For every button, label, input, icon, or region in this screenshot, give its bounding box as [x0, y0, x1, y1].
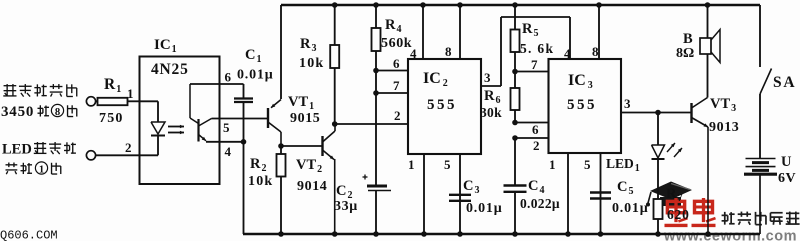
annotation line 2: 3450 pin 8 [1, 104, 77, 120]
pin 5 label IC2 [444, 157, 451, 172]
watermark site name (CJK) [722, 212, 800, 225]
junction R6 / IC3 pin6 [512, 120, 518, 126]
svg-text:2: 2 [394, 108, 401, 123]
capacitor C4 [504, 138, 527, 234]
label IC3 [568, 72, 593, 91]
label C4 value [520, 196, 560, 211]
svg-text:Q606.COM: Q606.COM [0, 229, 58, 241]
label C1 value [237, 68, 273, 83]
svg-text:8: 8 [55, 106, 60, 118]
label R3 value 10k [299, 56, 324, 71]
pin 1 label IC2 [408, 157, 415, 172]
terminal input 2 [86, 151, 139, 160]
svg-text:4N25: 4N25 [151, 61, 189, 78]
label R5 [522, 21, 538, 39]
junction R5 top [512, 2, 518, 8]
junction R4 / IC2 pin7 [373, 90, 379, 96]
svg-text:6V: 6V [778, 171, 796, 186]
wire C1 to ground rail [243, 142, 245, 234]
wire IC1 pin 4 [206, 141, 244, 143]
pin 1 label IC1 [127, 86, 134, 101]
label C1 [245, 47, 261, 65]
svg-text:2: 2 [125, 140, 132, 155]
wire to IC2 pin 7 [376, 92, 408, 94]
label R3 [300, 36, 316, 54]
junction R2 ground [278, 231, 284, 237]
pin 4 label IC2 [410, 46, 417, 61]
junction IC3 pin1 ground [565, 231, 571, 237]
speaker B [700, 5, 720, 98]
svg-text:B: B [683, 31, 693, 47]
junction C1/pin4 [241, 139, 247, 145]
IC1 phototransistor [190, 84, 212, 142]
svg-text:7: 7 [531, 57, 538, 72]
pin 6 label IC2 [393, 56, 400, 71]
label R7 [666, 186, 682, 204]
wire to IC3 pin 2 [515, 137, 549, 139]
svg-text:5. 6k: 5. 6k [520, 41, 554, 56]
junction IC3 pin2 branch [512, 135, 518, 141]
label R2 value 10k [248, 174, 273, 189]
capacitor C2 [367, 186, 391, 234]
junction R3 / VT2 collector / IC2 pin2 [332, 121, 338, 127]
pin 3 label IC2 [484, 70, 491, 85]
junction C4 ground [512, 231, 518, 237]
svg-text:2: 2 [533, 138, 540, 153]
annotation line 1 (CJK): digital clock chip [3, 84, 76, 97]
junction R7 ground [655, 231, 661, 237]
svg-text:3: 3 [624, 96, 631, 111]
wire ground bottom rail [243, 233, 760, 235]
svg-text:5: 5 [444, 157, 451, 172]
svg-text:1: 1 [549, 157, 556, 172]
LED1 light arrows [667, 143, 682, 157]
svg-text:9015: 9015 [290, 111, 320, 126]
pin 6 label IC1 [225, 70, 232, 85]
wire trigger to IC2 pin 2 [335, 123, 408, 125]
wire IC3 pin 3 to VT3 base [621, 112, 692, 114]
label VT2 type 9014 [297, 179, 327, 194]
capacitor C2 polarity mark [363, 175, 368, 180]
wire positive supply top rail [281, 4, 760, 6]
junction C5 ground [598, 231, 604, 237]
resistor R6 [511, 72, 520, 123]
label VT3 type 9013 [709, 120, 739, 135]
svg-text:555: 555 [567, 97, 597, 113]
junction IC2 pin4 top [420, 2, 426, 8]
timer IC2 box [408, 59, 481, 154]
LED LED1 [652, 113, 665, 200]
label R6 value 30k [480, 105, 502, 120]
wire IC3 pin 8 [598, 5, 600, 59]
svg-text:5: 5 [584, 157, 591, 172]
svg-text:555: 555 [427, 97, 457, 113]
wire VT1 collector to VT2 base [281, 145, 323, 147]
resistor R3 [330, 5, 339, 124]
battery U [744, 159, 777, 235]
watermark red logo text [664, 198, 715, 225]
transistor VT1 [268, 100, 281, 147]
junction C3 ground [457, 231, 463, 237]
svg-text:0.01μ: 0.01μ [237, 68, 273, 83]
junction R3 top [332, 2, 338, 8]
label SA [773, 74, 796, 91]
label R7 value 620 [667, 207, 690, 222]
label IC2 type 555 [427, 97, 457, 113]
label VT3 [710, 96, 736, 114]
label IC1 type 4N25 [151, 61, 189, 78]
label C5 [617, 179, 633, 197]
svg-text:10k: 10k [299, 56, 324, 71]
svg-text:9013: 9013 [709, 120, 739, 135]
timer IC3 box [549, 59, 622, 153]
svg-text:LED: LED [2, 142, 32, 158]
IC1 coupling arrows [168, 125, 184, 135]
svg-text:8: 8 [592, 44, 599, 59]
wire to IC3 pin 7 [515, 71, 549, 73]
wire top-left corner down to VT1 emitter [280, 5, 282, 99]
svg-text:SA: SA [773, 74, 796, 91]
label U value 6V [778, 171, 796, 186]
resistor R5 [511, 5, 520, 72]
pin 8 label IC2 [445, 44, 452, 59]
capacitor C1 [234, 84, 253, 142]
label LED1 [606, 156, 640, 174]
wire IC1 pin 6 to C1 [190, 83, 244, 85]
pin 6 label IC3 [532, 122, 539, 137]
terminal input 1 [86, 97, 98, 106]
svg-text:0.022μ: 0.022μ [520, 196, 560, 211]
label R4 value 560k [381, 36, 412, 51]
svg-text:8: 8 [445, 44, 452, 59]
wire IC2 pin 4 [422, 5, 424, 59]
label C4 [528, 178, 544, 196]
svg-text:0.01μ: 0.01μ [612, 201, 648, 216]
svg-text:4: 4 [410, 46, 417, 61]
svg-text:4: 4 [225, 144, 232, 159]
wire IC2 pin 8 [459, 5, 461, 59]
junction C2 ground [373, 231, 379, 237]
wire IC2 pin 5 down [459, 154, 461, 234]
pin 7 label IC3 [531, 57, 538, 72]
pin 5 label IC1 [223, 120, 230, 135]
pin 7 label IC2 [393, 78, 400, 93]
svg-text:1: 1 [408, 157, 415, 172]
pin 1 label IC3 [549, 157, 556, 172]
svg-text:3: 3 [484, 70, 491, 85]
svg-text:7: 7 [393, 78, 400, 93]
svg-text:U: U [781, 154, 792, 170]
svg-text:0.01μ: 0.01μ [466, 201, 502, 216]
switch SA blade [760, 69, 772, 95]
label B value 8 ohm [676, 46, 694, 61]
wire switch to battery [759, 94, 761, 158]
svg-text:9014: 9014 [297, 179, 327, 194]
label C2 value 33u [334, 199, 358, 214]
annotation line 4: common-cathode pin 1 [6, 162, 61, 175]
watermark graduation-cap logo [646, 182, 692, 207]
label R2 [250, 156, 266, 174]
IC1 internal LED [140, 101, 166, 155]
pin 3 label IC3 [624, 96, 631, 111]
junction R4 top [373, 2, 379, 8]
svg-text:30k: 30k [480, 105, 502, 120]
svg-text:3450: 3450 [1, 104, 34, 120]
svg-text:620: 620 [667, 207, 690, 222]
label IC1 [154, 37, 177, 55]
label C3 value [466, 201, 502, 216]
label VT2 [296, 157, 322, 175]
junction R4 / IC2 pin6 [373, 68, 379, 74]
optocoupler IC1 box [140, 57, 220, 185]
resistor R7 [654, 199, 663, 234]
wire to IC2 pin 6 [376, 70, 408, 72]
capacitor C3 [449, 195, 471, 201]
junction VT2 emitter ground [332, 231, 338, 237]
svg-text:750: 750 [99, 111, 124, 126]
svg-text:5: 5 [223, 120, 230, 135]
junction R5 / R6 / IC3 pin7 [512, 69, 518, 75]
transistor VT2 [323, 124, 336, 234]
pin 4 label IC1 [225, 144, 232, 159]
svg-text:1: 1 [127, 86, 134, 101]
label R1 [104, 76, 121, 95]
svg-text:33μ: 33μ [334, 199, 358, 214]
junction LED branch [655, 110, 661, 116]
watermark url text [663, 229, 797, 241]
junction VT1 collector / R2 / VT2 base [278, 143, 284, 149]
wire IC2 pin 3 output [481, 17, 570, 86]
label B [683, 31, 693, 47]
transistor VT3 [692, 98, 709, 128]
junction IC2 pin1 ground [421, 231, 427, 237]
wire IC3 pin 1 to ground [567, 153, 569, 234]
pin 8 label IC3 [592, 44, 599, 59]
pin 2 label IC3 [533, 138, 540, 153]
label R1 value 750 [99, 111, 124, 126]
pin 4 label IC3 [564, 46, 571, 61]
label IC3 type 555 [567, 97, 597, 113]
label U [781, 154, 792, 170]
capacitor C5 [590, 193, 611, 199]
svg-text:10k: 10k [248, 174, 273, 189]
wire IC2 pin 1 to ground [423, 154, 425, 234]
label R6 [484, 88, 500, 106]
label IC2 [423, 70, 448, 89]
watermark site url bottom-left [0, 229, 58, 241]
junction VT3 emitter ground [705, 231, 711, 237]
wire IC1 pin 5 to VT1 base [212, 118, 269, 120]
resistor R4 [372, 5, 381, 187]
annotation line 3 (LED display) [2, 142, 76, 158]
svg-text:560k: 560k [381, 36, 412, 51]
pin 5 label IC3 [584, 157, 591, 172]
junction IC2 pin8 top [457, 2, 463, 8]
resistor R2 [277, 146, 286, 234]
svg-text:6: 6 [532, 122, 539, 137]
label C2 [336, 183, 352, 201]
label VT1 type 9015 [290, 111, 320, 126]
label VT1 [288, 94, 314, 112]
wire top rail to switch [759, 5, 761, 67]
svg-text:8Ω: 8Ω [676, 46, 694, 61]
label C3 [463, 178, 479, 196]
pin 2 label IC1 [125, 140, 132, 155]
svg-text:6: 6 [393, 56, 400, 71]
resistor R1 [98, 98, 140, 105]
label C5 value [612, 201, 648, 216]
label R5 value 5.6k [520, 41, 554, 56]
junction speaker top [705, 2, 711, 8]
svg-text:1: 1 [39, 163, 44, 175]
pin 2 label IC2 [394, 108, 401, 123]
junction IC3 pin8 top [596, 2, 602, 8]
label R4 [385, 17, 401, 35]
wire to IC3 pin 6 [515, 122, 549, 124]
svg-text:6: 6 [225, 70, 232, 85]
wire IC3 pin 5 down [600, 153, 602, 234]
wire VT3 emitter to ground [707, 127, 709, 234]
